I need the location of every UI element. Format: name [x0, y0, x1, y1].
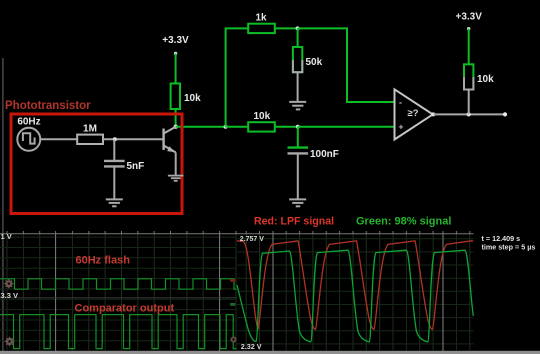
resistor R4 50k (divider bottom) — [292, 47, 323, 72]
node output junction dot — [467, 112, 471, 116]
svg-text:10k: 10k — [184, 93, 201, 104]
svg-text:time step = 5 µs: time step = 5 µs — [482, 243, 536, 252]
wire +3.3V to R5 — [468, 29, 470, 65]
svg-text:Green: 98% signal: Green: 98% signal — [356, 216, 451, 228]
svg-text:1M: 1M — [83, 124, 97, 135]
svg-text:Comparator output: Comparator output — [75, 303, 175, 315]
wire collector node to divider junction — [176, 126, 226, 128]
capacitor C2 5nF — [104, 161, 144, 172]
label 3.3 V — [1, 291, 19, 300]
wire R2 to LPF node — [275, 126, 298, 128]
wire LPF node to comparator plus input — [298, 126, 395, 128]
svg-text:+3.3V: +3.3V — [162, 35, 189, 46]
svg-text:1 V: 1 V — [1, 232, 12, 241]
ground (below C2) — [106, 199, 123, 206]
trace LPF signal (red) — [237, 241, 473, 330]
svg-text:100nF: 100nF — [310, 149, 339, 160]
node op-amp output dot — [431, 112, 435, 116]
scope grid left (horizontal minors) — [0, 237, 237, 341]
wire C1 to ground — [297, 155, 299, 199]
resistor R6 1M — [77, 124, 103, 145]
label Green: 98% signal — [356, 216, 451, 228]
label 1 V — [1, 232, 12, 241]
svg-text:60Hz flash: 60Hz flash — [76, 255, 131, 267]
svg-text:2.757 V: 2.757 V — [240, 236, 264, 243]
wire junction to R2 — [226, 126, 249, 128]
trace 60Hz flash square wave — [0, 279, 237, 289]
label Red: LPF signal — [254, 216, 334, 228]
svg-text:3.3 V: 3.3 V — [1, 291, 19, 300]
wire Q1 emitter to ground — [175, 152, 177, 175]
resistor R5 10k (output pull-up) — [463, 64, 494, 89]
wire base node down to C2 — [113, 139, 115, 160]
wire op-amp output — [433, 113, 505, 115]
node divider junction dot — [224, 125, 228, 129]
scope edge marker red — [230, 279, 235, 282]
gear icon (right scope) — [230, 336, 236, 342]
scope grid right (major verticals) — [272, 234, 274, 351]
gear icon (bottom left scope) — [4, 336, 15, 347]
svg-text:Phototransistor: Phototransistor — [5, 100, 91, 112]
wire threshold node to R4 — [297, 28, 299, 47]
window bottom bar — [0, 351, 540, 354]
scope panel divider (left scope) — [0, 297, 237, 299]
wire R1 to collector node — [175, 109, 177, 127]
scope grid right (horizontal minors) — [237, 239, 474, 344]
wire LPF node down to C1 — [297, 127, 299, 147]
resistor R3 1k (feedback divider top) — [248, 13, 275, 34]
svg-text:50k: 50k — [306, 57, 323, 68]
power post dot (left +3.3V) — [174, 52, 177, 55]
wire C2 to ground — [113, 168, 115, 199]
svg-text:+: + — [399, 122, 404, 132]
svg-text:10k: 10k — [477, 74, 494, 85]
wire R5 to output junction — [468, 90, 470, 115]
trace comparator output square wave — [0, 315, 237, 349]
op-amp U1 comparator — [395, 89, 433, 139]
ground (below R4) — [289, 102, 306, 110]
label time step = 5 us — [482, 243, 536, 252]
svg-text:60Hz: 60Hz — [17, 117, 40, 128]
label Comparator output — [75, 303, 175, 315]
capacitor C1 100nF — [288, 148, 339, 160]
transistor Q1 phototransistor NPN — [164, 127, 176, 153]
wire R4 to ground — [297, 72, 299, 101]
node LPF node dot — [296, 125, 300, 129]
scope edge marker green — [230, 303, 235, 306]
power post dot (right +3.3V) — [467, 27, 470, 30]
node collector junction dot — [174, 125, 178, 129]
red highlight box — [11, 114, 182, 214]
svg-text:10k: 10k — [254, 111, 271, 122]
label 60Hz flash — [76, 255, 131, 267]
wire 1k branch: junction up and across — [226, 28, 249, 126]
svg-text:2.32 V: 2.32 V — [241, 342, 262, 351]
source V1 60Hz square-wave — [17, 128, 40, 151]
scope grid right (vertical minors) — [246, 234, 470, 351]
label Phototransistor — [5, 100, 91, 112]
svg-text:-: - — [399, 98, 402, 108]
resistor R2 10k (LPF series) — [248, 111, 275, 132]
label 2.757 V — [240, 236, 264, 243]
wire threshold node to comparator minus input — [298, 28, 395, 102]
resistor R1 10k (collector pull-up) — [171, 84, 202, 110]
power rail +3.3V label (left) — [162, 35, 189, 46]
scope grid left (major verticals) — [55, 234, 57, 351]
label t = 12.409 s — [482, 234, 521, 243]
wire R6 to base node — [103, 138, 163, 140]
gear icon (top left scope) — [4, 278, 15, 289]
scope grid left (vertical minors) — [7, 234, 236, 351]
power rail +3.3V label (right) — [455, 12, 482, 23]
node base node dot — [113, 137, 117, 141]
svg-text:≥?: ≥? — [408, 108, 419, 119]
wire V1 to R6 — [40, 138, 77, 140]
window left edge line — [2, 58, 3, 351]
scope top border with ticks — [0, 231, 474, 234]
node output terminal dot — [503, 112, 507, 116]
svg-text:Red: LPF signal: Red: LPF signal — [254, 216, 334, 228]
svg-text:1k: 1k — [256, 13, 268, 24]
node threshold node dot — [296, 26, 300, 30]
wire R3 to threshold node — [275, 27, 298, 29]
trace 98% signal (green) — [237, 250, 473, 342]
wire +3.3V to R1 — [175, 54, 177, 84]
label 2.32 V — [241, 342, 262, 351]
svg-text:5nF: 5nF — [127, 161, 145, 172]
ground (emitter) — [168, 176, 184, 181]
svg-text:+3.3V: +3.3V — [455, 12, 482, 23]
label 60Hz — [17, 117, 40, 128]
ground (below C1) — [289, 199, 306, 206]
